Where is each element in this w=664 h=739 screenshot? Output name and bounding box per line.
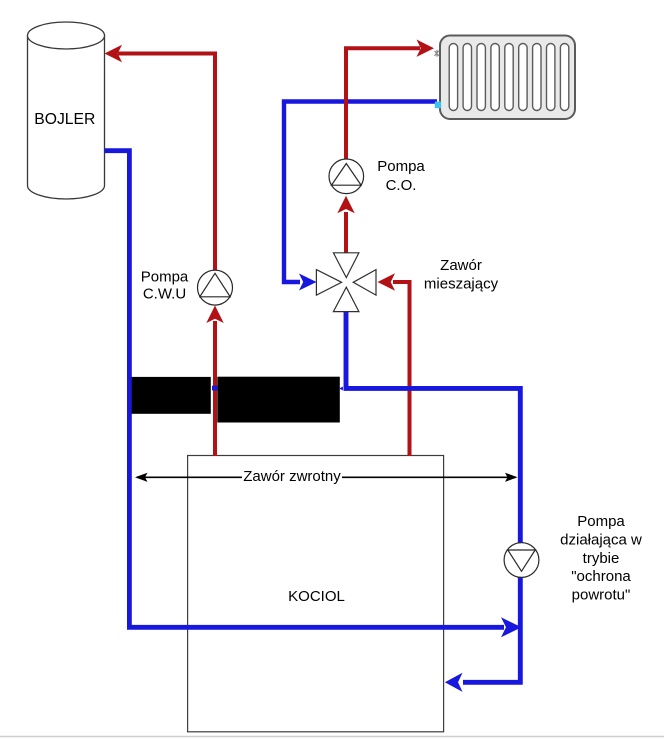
svg-text:Zawór zwrotny: Zawór zwrotny — [243, 468, 341, 485]
wire: red R4 pump CO top to radiator (arrow right) — [346, 48, 420, 158]
black redaction rectangle right — [217, 377, 339, 423]
radiator fin 7 — [533, 44, 541, 111]
svg-text:mieszający: mieszający — [424, 276, 499, 293]
radiator fin 4 — [491, 44, 499, 111]
svg-text:powrotu": powrotu" — [572, 587, 631, 604]
black redaction rectangle left — [132, 377, 211, 414]
svg-text:Pompa: Pompa — [377, 158, 425, 175]
boiler tank cylinder BOJLER — [28, 22, 105, 199]
bottom page boundary line — [0, 736, 664, 738]
wire: red R3 valve top to pump CO bottom (arrow up) — [344, 212, 348, 253]
blue hidden arrow tip sliver at black rect edge — [339, 387, 343, 391]
arrowhead B3 (points left into KOCIOL right side) — [445, 673, 463, 692]
wire: blue radiator return B2 (radiator left, down, into mixing valve left) — [284, 102, 437, 283]
svg-text:Zawór: Zawór — [440, 257, 482, 274]
arrowhead B1 (points right into return pump line) — [501, 617, 522, 637]
wire: red R1 pump CWU to BOJLER top (arrow left into tank) — [118, 54, 215, 271]
boiler KOCIOL box — [188, 456, 444, 732]
svg-text:Pompa: Pompa — [141, 269, 189, 286]
pump CO symbol — [329, 159, 364, 194]
pump CWU symbol — [198, 270, 233, 305]
radiator connector nub — [435, 50, 439, 57]
wire: red R5 KOCIOL top to mixing valve right (arrow left) — [393, 282, 410, 456]
radiator fin 6 — [519, 44, 527, 111]
radiator fin 3 — [477, 44, 485, 111]
blue crossing patch over red R2 — [212, 386, 217, 391]
mixing valve: bottom triangle — [333, 287, 359, 311]
wire: red R2 KOCIOL top to pump CWU bottom (arrow up) — [213, 321, 217, 456]
mixing valve: right triangle — [353, 270, 376, 296]
radiator fin 9 — [560, 44, 568, 111]
radiator fin 1 — [449, 44, 457, 111]
arrowhead B2 (points right into mixing valve) — [299, 274, 317, 291]
wire: blue cold return B1 (BOJLER right side, down left side, to bottom arrow) — [105, 151, 505, 628]
svg-text:C.W.U: C.W.U — [143, 286, 186, 303]
svg-text:trybie: trybie — [583, 550, 620, 567]
zawor zwrotny left arrowhead — [135, 473, 148, 482]
svg-text:Pompa: Pompa — [577, 513, 625, 530]
radiator body — [440, 36, 575, 120]
svg-text:BOJLER: BOJLER — [34, 111, 95, 128]
svg-text:"ochrona: "ochrona — [571, 568, 631, 585]
zawor zwrotny label background — [242, 468, 342, 485]
radiator fin 8 — [547, 44, 555, 111]
radiator inlet marker cyan — [435, 102, 441, 109]
radiator fin 5 — [505, 44, 513, 111]
arrowhead R4 — [417, 40, 435, 57]
arrowhead R2 — [206, 306, 223, 324]
wire: blue boiler return B3 (valve bottom, down, right, down through pump, bottom left into KOCIOL) — [346, 312, 520, 683]
zawor zwrotny double arrow line — [137, 476, 516, 478]
pump return symbol (triangle down) — [504, 543, 539, 578]
svg-text:działająca w: działająca w — [560, 531, 642, 548]
arrowhead R1 — [105, 45, 123, 62]
zawor zwrotny right arrowhead — [505, 473, 518, 482]
mixing valve: left triangle — [316, 270, 341, 296]
svg-text:KOCIOL: KOCIOL — [288, 588, 345, 605]
radiator fin 2 — [463, 44, 471, 111]
svg-text:C.O.: C.O. — [386, 177, 417, 194]
mixing valve: top triangle — [316, 253, 376, 312]
arrowhead R3 — [337, 196, 354, 214]
arrowhead R5 — [378, 273, 396, 290]
